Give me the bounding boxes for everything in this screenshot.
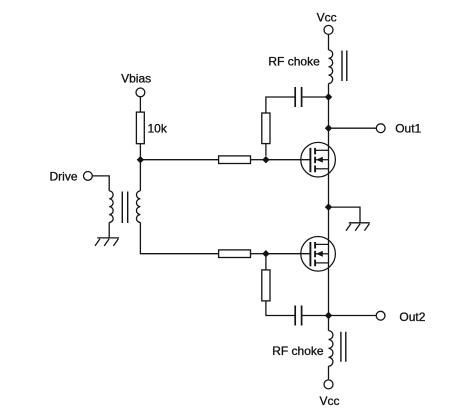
wire R3 to gate node — [251, 159, 266, 161]
wire cap1 branch left and down — [266, 97, 295, 113]
wire main vertical rail (Vcc top to choke) — [328, 35, 330, 50]
svg-text:RF choke: RF choke — [272, 344, 324, 358]
ground (center) — [346, 223, 370, 231]
node bias junction — [137, 156, 144, 163]
node gate junction M2 — [262, 250, 269, 257]
wire main vertical rail (bottom choke to Vcc bottom) — [328, 366, 330, 379]
svg-text:Drive: Drive — [50, 169, 78, 183]
wire gate of M2 — [266, 253, 310, 255]
node center junction (source M1 / drain M2) — [325, 203, 332, 210]
svg-text:Out2: Out2 — [399, 310, 425, 324]
inductor L2 core bars — [341, 332, 346, 362]
wire to Out1 — [329, 127, 377, 129]
wire gate node M2 down to R5 — [265, 254, 267, 270]
terminal Out2 — [376, 311, 385, 320]
wire gate of M1 — [266, 159, 310, 161]
node gate junction M1 — [262, 156, 269, 163]
resistor R4 (lower gate resistor) — [219, 250, 251, 258]
resistor R5 (lower feedback resistor) — [262, 270, 270, 301]
inductor L2 RF choke coil — [329, 331, 333, 367]
wire Drive to transformer primary — [92, 176, 109, 191]
wire cap2 to bottom junction — [302, 315, 328, 317]
wire Vbias down — [139, 97, 141, 112]
wire secondary bottom to lower gate resistor — [140, 222, 218, 253]
inductor L1 core bars — [342, 51, 347, 82]
transformer T1 core bars — [122, 192, 127, 224]
terminal Out1 — [376, 124, 385, 133]
svg-text:RF choke: RF choke — [268, 55, 320, 69]
wire center junction to ground — [329, 207, 361, 223]
transistor M1 (upper MOSFET) — [301, 142, 336, 177]
capacitor C2 — [295, 306, 301, 326]
transistor M2 (lower MOSFET) — [301, 237, 336, 272]
wire primary to ground — [108, 222, 110, 238]
wire main vertical rail (choke to bottom choke, through M1, M2) — [328, 84, 330, 331]
svg-text:Vbias: Vbias — [121, 71, 151, 85]
resistor R1 10k — [136, 112, 144, 144]
resistor R3 (upper gate resistor) — [219, 156, 251, 164]
transformer T1 secondary winding — [136, 191, 140, 223]
wire bias rail to gate resistor R3 — [140, 159, 218, 161]
inductor L1 RF choke coil — [329, 50, 333, 84]
node bottom junction (Out2) — [325, 312, 332, 319]
ground (left, transformer primary) — [95, 238, 119, 246]
capacitor C1 — [295, 87, 301, 107]
terminal Vcc bottom — [324, 380, 333, 389]
wire R2 bottom to gate node — [265, 144, 267, 156]
svg-text:Vcc: Vcc — [317, 11, 337, 25]
terminal Vcc top — [324, 25, 333, 34]
svg-text:10k: 10k — [148, 121, 168, 135]
wire R1 to transformer secondary — [139, 144, 141, 191]
wire cap1 branch right — [302, 96, 328, 98]
terminal Vbias — [136, 88, 145, 97]
wire to Out2 — [329, 315, 377, 317]
node junction1 (choke/cap) — [325, 93, 332, 100]
svg-text:Out1: Out1 — [395, 122, 421, 136]
resistor R2 (upper feedback resistor) — [262, 113, 270, 144]
wire R4 to gate node M2 — [251, 253, 266, 255]
terminal Drive — [84, 172, 93, 181]
transformer T1 primary winding — [109, 191, 113, 223]
svg-text:Vcc: Vcc — [320, 394, 340, 408]
wire R5 to cap2 — [266, 301, 295, 316]
node junction2 (Out1) — [325, 125, 332, 132]
